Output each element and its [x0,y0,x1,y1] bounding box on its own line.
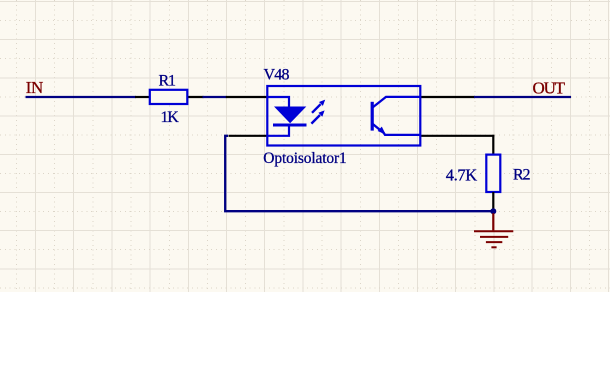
optocoupler V48 pin 2 (cathode) [229,135,269,137]
optocoupler V48 pin 3 (emitter) [420,135,494,137]
optocoupler LED anode lead [267,97,289,108]
optocoupler LED cathode lead [267,125,289,136]
optocoupler LED triangle [274,107,306,124]
svg-text:V48: V48 [264,67,290,84]
svg-text:Optoisolator1: Optoisolator1 [263,150,346,167]
optocoupler V48 body [267,86,420,146]
wire cathode feedback: down and across to R2 bottom [225,136,493,211]
resistor R1 [135,90,204,104]
svg-text:OUT: OUT [533,79,566,98]
wire IN to R1 [26,96,137,98]
optocoupler V48 pin 1 (anode) [226,96,268,98]
svg-text:R1: R1 [159,73,176,90]
resistor R2 [486,155,500,209]
wire emitter down to R2 [492,135,494,155]
junction node [490,208,496,214]
svg-text:4.7K: 4.7K [446,165,477,184]
ground [474,213,513,247]
optocoupler LED cathode bar [273,124,307,127]
wire collector to OUT [474,96,571,98]
optocoupler phototransistor collector [373,97,421,108]
svg-text:IN: IN [26,78,43,97]
optocoupler light arrow lower [311,110,324,123]
svg-text:R2: R2 [513,167,530,184]
optocoupler light arrow upper [312,100,325,113]
wire R1 to optocoupler [203,96,227,98]
optocoupler phototransistor base bar [371,102,374,131]
svg-text:1K: 1K [161,109,180,126]
optocoupler phototransistor emitter [373,124,421,135]
optocoupler V48 pin 4 (collector) [420,96,475,98]
